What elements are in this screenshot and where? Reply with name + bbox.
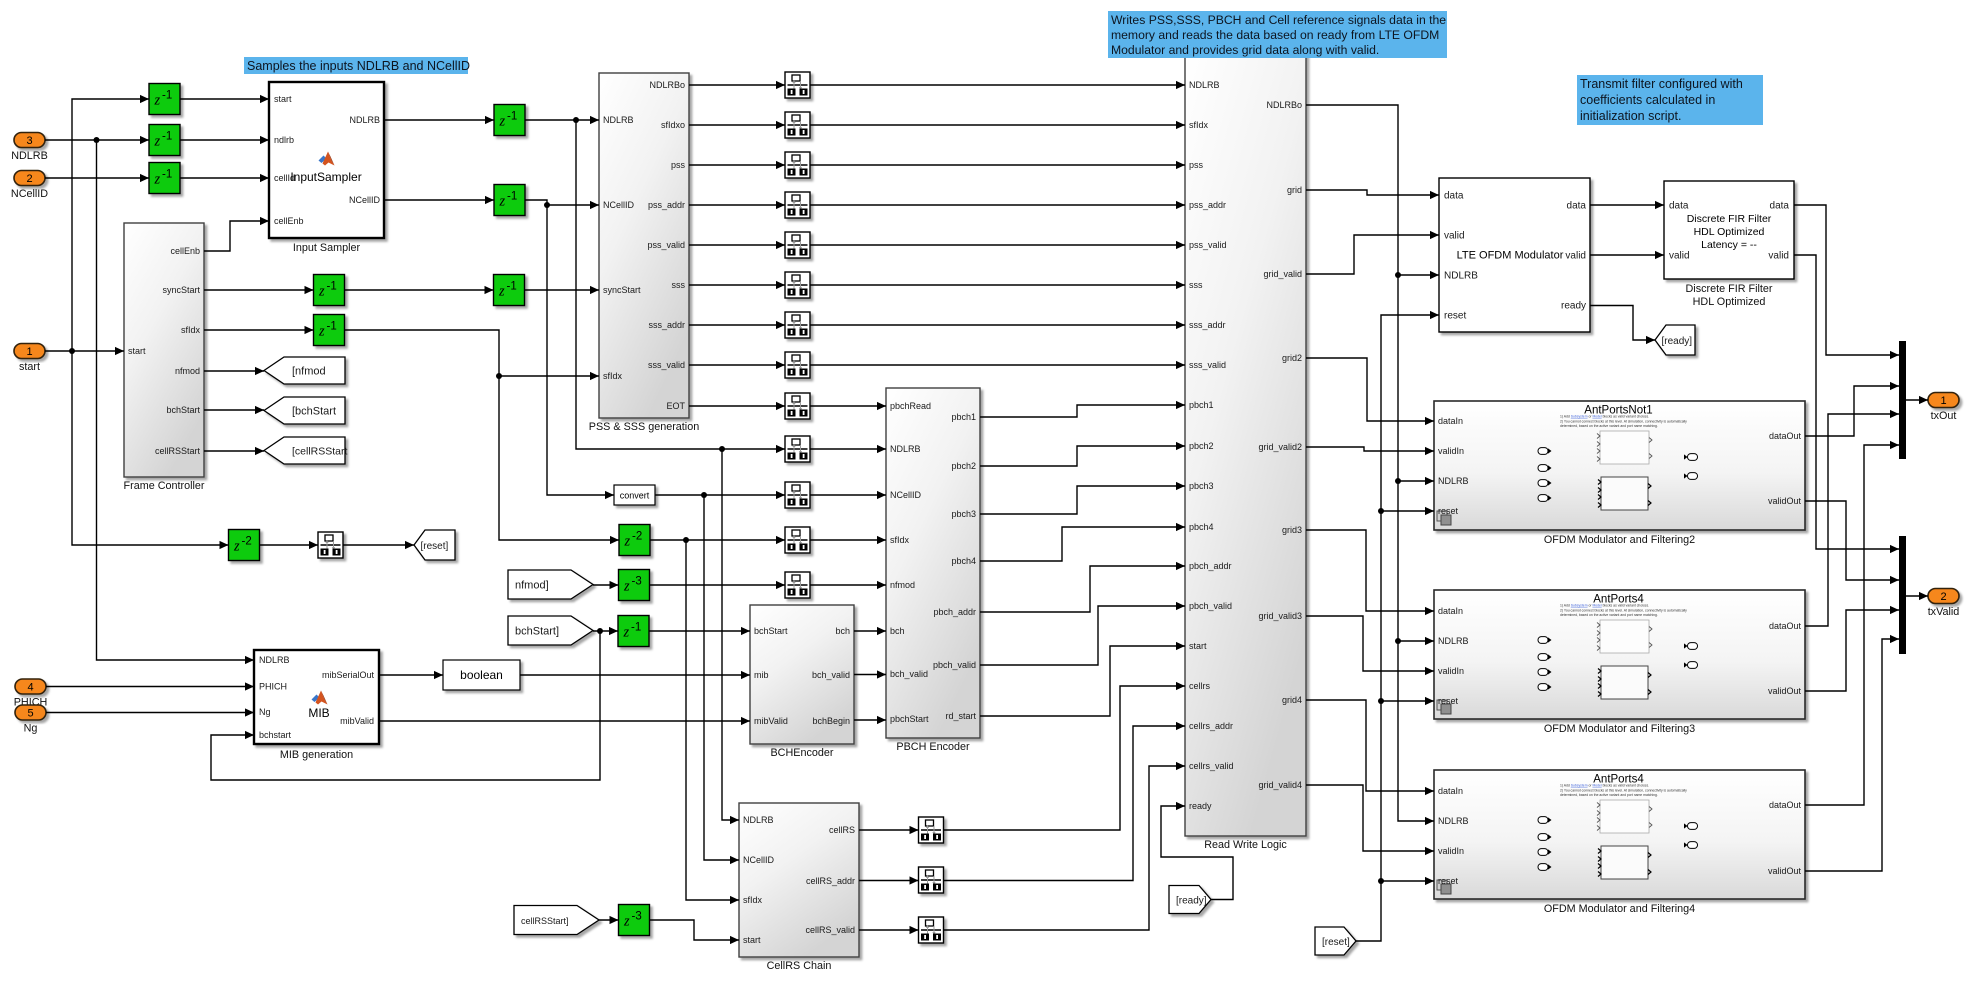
rate transition sfIdxo [785, 112, 810, 138]
svg-text:grid_valid2: grid_valid2 [1258, 442, 1302, 452]
rate transition pss [785, 152, 810, 178]
svg-text:NCellID: NCellID [11, 188, 48, 200]
delay Z-3 cellRSStart [619, 905, 650, 936]
wire convert to rate transition [655, 491, 785, 499]
svg-text:txValid: txValid [1928, 606, 1960, 618]
wire PBCH pbch_valid to Read Write Logic [980, 602, 1185, 665]
svg-text:determined, based on the activ: determined, based on the active variant … [1560, 613, 1658, 617]
wire LTE OFDM ready to goto ready [1590, 306, 1655, 345]
svg-text:cellRSStart]: cellRSStart] [521, 916, 569, 926]
svg-text:HDL Optimized: HDL Optimized [1694, 226, 1765, 238]
wire CellRS cellRS_addr to rate transition [859, 876, 919, 884]
svg-text:NDLRB: NDLRB [1189, 80, 1220, 90]
svg-text:2) You cannot connect blocks a: 2) You cannot connect blocks at this lev… [1560, 608, 1687, 612]
inport 1 start [14, 344, 45, 374]
unit delay Z-1 ndlrb [149, 125, 180, 156]
svg-text:pbch4: pbch4 [1189, 522, 1214, 532]
svg-text:NDLRB: NDLRB [1438, 636, 1469, 646]
wire PSS pss_addr to rate transition [689, 201, 785, 209]
wire rate transition to goto reset [343, 541, 414, 549]
svg-text:validIn: validIn [1438, 666, 1464, 676]
svg-text:coefficients calculated in: coefficients calculated in [1580, 93, 1715, 107]
from tag [reset] [1315, 927, 1356, 955]
svg-text:InputSampler: InputSampler [290, 170, 361, 184]
rate transition sss_addr [785, 312, 810, 338]
mux txValid [1899, 536, 1906, 654]
svg-text:ready: ready [1189, 801, 1212, 811]
wire PSS NDLRBo to rate transition [689, 81, 785, 89]
svg-text:pss_addr: pss_addr [648, 200, 685, 210]
annotation note: Samples the inputs [244, 57, 470, 74]
wire inport4 PHICH to MIB [46, 682, 254, 690]
svg-text:start: start [19, 361, 40, 373]
wire PSS sss_valid to rate transition [689, 361, 785, 369]
svg-text:1) Add Subsystem or Model bloc: 1) Add Subsystem or Model blocks as vali… [1560, 415, 1649, 419]
wire delay Z-2 sfIdx to rate transition [650, 536, 785, 544]
svg-text:-1: -1 [327, 281, 337, 293]
svg-text:dataOut: dataOut [1769, 800, 1802, 810]
wire grid_valid4 to Filtering4 validIn [1306, 785, 1434, 855]
wire PSS sfIdxo to rate transition [689, 121, 785, 129]
wire CellRS cellRS_valid to rate transition [859, 926, 919, 934]
svg-text:PHICH: PHICH [259, 682, 287, 692]
svg-text:data: data [1444, 191, 1464, 202]
MATLAB function block MIB generation [254, 650, 379, 761]
goto tag [bchStart [264, 397, 345, 424]
inport 3 NDLRB [11, 133, 48, 163]
svg-text:Discrete FIR Filter: Discrete FIR Filter [1686, 283, 1773, 295]
rate transition NDLRBo [785, 72, 810, 98]
svg-text:ready: ready [1561, 301, 1586, 312]
wire Filtering3 dataOut to mux txOut [1805, 410, 1899, 626]
svg-text:-1: -1 [162, 131, 172, 143]
wire NCellID branch to convert [547, 205, 614, 499]
svg-text:NDLRB: NDLRB [890, 444, 921, 454]
svg-text:start: start [128, 346, 146, 356]
subsystem Read Write Logic [1185, 54, 1306, 851]
svg-text:1) Add Subsystem or Model bloc: 1) Add Subsystem or Model blocks as vali… [1560, 784, 1649, 788]
wire PBCH pbch2 to Read Write Logic [980, 442, 1185, 466]
svg-text:z: z [623, 579, 630, 595]
wire Filtering4 validOut to mux txValid [1805, 635, 1899, 871]
svg-text:boolean: boolean [460, 668, 503, 682]
wire PSS pss_valid to rate transition [689, 241, 785, 249]
subsystem PSS and SSS generation [589, 73, 699, 433]
wire PSS sss to rate transition [689, 281, 785, 289]
svg-text:EOT: EOT [666, 401, 685, 411]
svg-text:pbch_valid: pbch_valid [933, 660, 976, 670]
wire PBCH rd_start to Read Write Logic start [980, 642, 1185, 716]
svg-text:validIn: validIn [1438, 846, 1464, 856]
wire BCHEncoder bch to PBCH [854, 627, 886, 635]
svg-text:valid: valid [1768, 251, 1789, 262]
wire rate transition cellRS to Read Write Logic [944, 682, 1186, 830]
svg-text:OFDM Modulator and Filtering4: OFDM Modulator and Filtering4 [1544, 903, 1695, 915]
data type conversion block boolean [443, 660, 520, 690]
rate transition EOT [785, 393, 810, 419]
svg-text:syncStart: syncStart [162, 285, 200, 295]
svg-text:valid: valid [1565, 251, 1586, 262]
wire inport2 to delay cellId [45, 174, 149, 182]
wire Frame Controller cellRSStart to goto [204, 447, 264, 455]
svg-text:[reset]: [reset] [1322, 937, 1350, 948]
wire rate transition nfmod to PBCH [810, 581, 886, 589]
wire mux to outport txOut [1906, 396, 1928, 404]
wire Filtering4 dataOut to mux txOut [1805, 441, 1899, 805]
svg-text:mib: mib [754, 670, 769, 680]
wire Frame Controller cellEnb to Input Sampler [204, 217, 269, 251]
svg-text:z: z [624, 534, 631, 550]
svg-text:MIB generation: MIB generation [280, 749, 353, 761]
svg-text:pss_valid: pss_valid [1189, 240, 1227, 250]
subsystem CellRS Chain [739, 803, 859, 972]
svg-text:start: start [274, 94, 292, 104]
wire grid_valid to LTE OFDM Modulator valid [1306, 231, 1439, 274]
wire boolean to BCHEncoder mib [520, 671, 750, 679]
from tag [ready] [1169, 886, 1211, 914]
svg-text:-1: -1 [631, 622, 641, 634]
svg-text:reset: reset [1438, 696, 1459, 706]
wire NDLRB branch to CellRS Chain [722, 449, 739, 824]
svg-text:cellrs_addr: cellrs_addr [1189, 721, 1233, 731]
svg-text:bchStart]: bchStart] [515, 625, 559, 637]
svg-text:bchStart: bchStart [754, 626, 788, 636]
svg-text:-1: -1 [162, 90, 172, 102]
svg-text:z: z [154, 93, 161, 109]
svg-text:[bchStart: [bchStart [292, 405, 336, 417]
wire CellRS cellRS to rate transition [859, 826, 919, 834]
wire rate transition sfIdx to PBCH [810, 536, 886, 544]
wire PSS pss to rate transition [689, 161, 785, 169]
svg-text:Frame Controller: Frame Controller [124, 480, 205, 492]
goto tag [cellRSStart [264, 437, 348, 464]
svg-text:determined, based on the activ: determined, based on the active variant … [1560, 424, 1658, 428]
wire grid2 to Filtering2 dataIn [1306, 358, 1434, 425]
svg-text:cellrs_valid: cellrs_valid [1189, 761, 1234, 771]
svg-text:NDLRB: NDLRB [1438, 816, 1469, 826]
wire from nfmod] to delay Z-3 [593, 581, 619, 589]
svg-text:NCellID: NCellID [603, 200, 635, 210]
wire PSS EOT to rate transition [689, 402, 785, 410]
svg-text:sss_valid: sss_valid [1189, 360, 1226, 370]
unit delay Z-1 NCellID2 [494, 185, 525, 216]
svg-text:pbchRead: pbchRead [890, 401, 931, 411]
wire NDLRB branch to MIB generation [97, 140, 255, 664]
wire rate transition sss_valid to Read Write Logic [810, 361, 1185, 369]
inport 5 Ng [15, 705, 46, 735]
wire rate transition EOT to PBCH pbchRead [810, 402, 886, 410]
wire sfIdx branch to CellRS Chain [686, 540, 739, 904]
svg-text:NDLRBo: NDLRBo [649, 80, 685, 90]
subsystem LTE OFDM Modulator [1439, 178, 1590, 332]
svg-text:bch_valid: bch_valid [890, 669, 928, 679]
wire rate transition pss to Read Write Logic [810, 161, 1185, 169]
wire NDLRBo branch to Filtering3 NDLRB [1395, 481, 1434, 645]
svg-text:-2: -2 [242, 536, 252, 548]
svg-text:z: z [318, 284, 325, 300]
wire delay cellId to Input Sampler [180, 174, 269, 182]
svg-text:[cellRSStart: [cellRSStart [292, 445, 348, 457]
svg-text:NDLRB: NDLRB [1444, 271, 1478, 282]
svg-text:z: z [499, 194, 506, 210]
unit delay Z-1 syncStart [314, 275, 345, 306]
rate transition pss_addr [785, 192, 810, 218]
variant subsystem OFDM Modulator and Filtering2 [1434, 401, 1805, 546]
svg-text:grid4: grid4 [1282, 695, 1302, 705]
svg-text:cellRS_valid: cellRS_valid [805, 925, 855, 935]
rate transition sfIdx [785, 527, 810, 553]
svg-text:dataOut: dataOut [1769, 621, 1802, 631]
wire rate transition NDLRBo to Read Write Logic [810, 81, 1185, 89]
svg-text:2: 2 [1940, 591, 1946, 603]
rate transition cellRS_valid [919, 917, 944, 943]
svg-text:bch_valid: bch_valid [812, 670, 850, 680]
wire rate transition sss_addr to Read Write Logic [810, 321, 1185, 329]
wire MIB mibSerialOut to boolean [379, 671, 443, 679]
rate transition cellRS_addr [919, 867, 944, 893]
svg-text:reset: reset [1438, 876, 1459, 886]
svg-text:2) You cannot connect blocks a: 2) You cannot connect blocks at this lev… [1560, 788, 1687, 792]
svg-text:reset: reset [1438, 506, 1459, 516]
svg-text:pss: pss [671, 160, 686, 170]
rate transition NDLRB [785, 436, 810, 462]
rate transition reset [318, 532, 343, 558]
inport 2 NCellID [11, 171, 48, 201]
wire delay bchStart to BCHEncoder [649, 627, 750, 635]
rate transition cellRS [919, 817, 944, 843]
svg-text:grid: grid [1287, 185, 1302, 195]
svg-text:PSS & SSS generation: PSS & SSS generation [589, 421, 699, 433]
svg-text:2: 2 [26, 173, 32, 185]
wire sfIdx branch to delay Z-2 [499, 376, 619, 544]
svg-text:nfmod]: nfmod] [515, 579, 549, 591]
from tag bchStart] [508, 616, 593, 645]
svg-text:-1: -1 [507, 111, 517, 123]
svg-text:z: z [498, 284, 505, 300]
svg-text:dataIn: dataIn [1438, 416, 1463, 426]
svg-text:-1: -1 [327, 321, 337, 333]
wire reset branch to Filtering2 reset [1381, 507, 1434, 515]
svg-text:z: z [233, 539, 240, 555]
wire LTE OFDM valid to FIR valid [1590, 251, 1664, 259]
wire delay cellRSStart to CellRS start [650, 920, 740, 944]
svg-text:Ng: Ng [24, 723, 38, 735]
svg-text:pbch2: pbch2 [1189, 441, 1214, 451]
svg-text:pbch_addr: pbch_addr [1189, 561, 1232, 571]
svg-text:data: data [1567, 201, 1587, 212]
wire reset branch to Filtering3 reset [1381, 697, 1434, 705]
inport 4 PHICH [14, 679, 48, 709]
svg-text:LTE OFDM Modulator: LTE OFDM Modulator [1457, 250, 1564, 262]
wire from ready] to Read Write Logic ready [1161, 802, 1233, 900]
wire Input Sampler NDLRB to delay [384, 116, 494, 124]
svg-text:1: 1 [1940, 395, 1946, 407]
svg-text:valid: valid [1669, 251, 1690, 262]
svg-text:-1: -1 [507, 281, 517, 293]
svg-text:validOut: validOut [1768, 496, 1802, 506]
rate transition sss [785, 272, 810, 298]
svg-text:-3: -3 [632, 576, 642, 588]
svg-text:determined, based on the activ: determined, based on the active variant … [1560, 793, 1658, 797]
wire rate transition sfIdxo to Read Write Logic [810, 121, 1185, 129]
svg-text:validIn: validIn [1438, 446, 1464, 456]
wire Filtering2 dataOut to mux txOut [1805, 382, 1899, 436]
svg-text:valid: valid [1444, 231, 1465, 242]
wire Frame Controller bchStart to goto [204, 406, 264, 414]
svg-text:sfIdx: sfIdx [1189, 120, 1209, 130]
svg-text:-2: -2 [632, 531, 642, 543]
svg-text:dataOut: dataOut [1769, 431, 1802, 441]
wire grid_valid2 to Filtering2 validIn [1306, 447, 1434, 455]
delay Z-2 reset path [229, 530, 260, 561]
wire inport5 Ng to MIB [46, 708, 254, 716]
svg-text:Read Write Logic: Read Write Logic [1204, 839, 1287, 851]
wire inport1 to Frame Controller start [45, 347, 124, 355]
svg-text:CellRS Chain: CellRS Chain [767, 960, 832, 972]
svg-text:-3: -3 [632, 911, 642, 923]
svg-text:2) You cannot connect blocks a: 2) You cannot connect blocks at this lev… [1560, 419, 1687, 423]
svg-text:z: z [623, 914, 630, 930]
annotation note: Transmit filter [1577, 75, 1763, 125]
svg-text:memory and reads the data base: memory and reads the data based on ready… [1111, 28, 1439, 42]
svg-text:BCHEncoder: BCHEncoder [770, 747, 833, 759]
wire PBCH pbch1 to Read Write Logic [980, 401, 1185, 417]
unit delay Z-1 bchStart [618, 616, 649, 647]
wire delay Z-2 to rate transition [260, 541, 319, 549]
wire NDLRBo branch to Filtering2 NDLRB [1395, 275, 1434, 485]
svg-text:Ng: Ng [259, 707, 271, 717]
wire PBCH pbch_addr to Read Write Logic [980, 562, 1185, 612]
svg-text:pbch_addr: pbch_addr [933, 607, 976, 617]
svg-text:pbch_valid: pbch_valid [1189, 601, 1232, 611]
svg-text:mibValid: mibValid [754, 716, 788, 726]
svg-text:z: z [154, 172, 161, 188]
svg-text:sfIdxo: sfIdxo [661, 120, 685, 130]
wire from cellRSStart] to delay Z-3 [599, 916, 619, 924]
wire NDLRB branch down to PBCH row [576, 120, 785, 453]
wire PBCH pbch3 to Read Write Logic [980, 482, 1185, 514]
wire NCellID to PSS generation [525, 200, 599, 209]
svg-text:ndlrb: ndlrb [274, 135, 294, 145]
subsystem PBCH Encoder [886, 388, 980, 753]
svg-text:grid_valid4: grid_valid4 [1258, 780, 1302, 790]
svg-text:cellRS_addr: cellRS_addr [806, 876, 855, 886]
svg-text:dataIn: dataIn [1438, 786, 1463, 796]
mux txOut [1899, 341, 1906, 459]
wire grid to LTE OFDM Modulator data [1306, 190, 1439, 199]
wire rate transition pss_valid to Read Write Logic [810, 241, 1185, 249]
svg-text:NDLRB: NDLRB [11, 150, 48, 162]
svg-text:NCellID: NCellID [743, 855, 775, 865]
wire rate transition NCellID to PBCH [810, 491, 886, 499]
svg-text:Samples the inputs NDLRB and N: Samples the inputs NDLRB and NCellID [247, 59, 470, 73]
outport 2 txValid [1928, 589, 1960, 619]
svg-text:Discrete FIR Filter: Discrete FIR Filter [1687, 213, 1772, 225]
subsystem BCHEncoder [750, 605, 854, 759]
goto tag [reset] [414, 530, 455, 560]
wire rate transition pss_addr to Read Write Logic [810, 201, 1185, 209]
svg-text:sfIdx: sfIdx [743, 895, 763, 905]
wire BCHEncoder bchBegin to PBCH pbchStart [854, 716, 886, 724]
svg-text:bchBegin: bchBegin [812, 716, 850, 726]
wire FIR data to mux txOut [1794, 205, 1899, 359]
wire MIB mibValid to BCHEncoder [379, 717, 750, 725]
svg-text:start: start [1189, 641, 1207, 651]
wire NDLRB to PSS generation [525, 116, 599, 124]
svg-text:HDL Optimized: HDL Optimized [1693, 296, 1766, 308]
unit delay Z-1 cellId [149, 163, 180, 194]
wire Frame Controller nfmod to goto [204, 367, 264, 375]
svg-text:NDLRB: NDLRB [603, 115, 634, 125]
wire rate transition cellRS_valid to Read Write Logic [944, 762, 1186, 930]
svg-text:grid_valid3: grid_valid3 [1258, 611, 1302, 621]
wire mux to outport txValid [1906, 592, 1928, 600]
svg-text:cellRSStart: cellRSStart [155, 446, 201, 456]
data type conversion block convert [614, 485, 655, 505]
svg-text:grid2: grid2 [1282, 353, 1302, 363]
variant subsystem OFDM Modulator and Filtering4 [1434, 770, 1805, 915]
svg-text:nfmod: nfmod [890, 580, 915, 590]
svg-text:sss_addr: sss_addr [648, 320, 685, 330]
svg-text:NDLRB: NDLRB [349, 115, 380, 125]
svg-text:sfIdx: sfIdx [890, 535, 910, 545]
variant subsystem OFDM Modulator and Filtering3 [1434, 590, 1805, 735]
wire syncStart delay to delay2 [345, 286, 494, 294]
svg-text:z: z [499, 114, 506, 130]
wire start branch down to delay Z-2 [72, 351, 229, 549]
from tag cellRSStart] [514, 906, 599, 935]
wire grid_valid3 to Filtering3 validIn [1306, 616, 1434, 675]
wire delay Z-3 nfmod to rate transition [650, 581, 786, 589]
wire delay start to Input Sampler [180, 95, 269, 103]
wire bchStart branch to MIB bchstart [211, 631, 600, 780]
svg-text:[nfmod: [nfmod [292, 365, 326, 377]
svg-text:pss: pss [1189, 160, 1204, 170]
svg-text:pbch1: pbch1 [951, 412, 976, 422]
svg-text:-1: -1 [507, 191, 517, 203]
subsystem Frame Controller [124, 223, 205, 492]
svg-text:mibSerialOut: mibSerialOut [322, 670, 375, 680]
svg-text:3: 3 [26, 135, 32, 147]
wire grid4 to Filtering4 dataIn [1306, 700, 1434, 795]
svg-text:z: z [318, 324, 325, 340]
svg-text:[ready]: [ready] [1176, 895, 1207, 906]
svg-text:pbch2: pbch2 [951, 461, 976, 471]
wire Input Sampler NCellID to delay [384, 196, 494, 204]
svg-text:bchStart: bchStart [166, 405, 200, 415]
wire sfIdx delay to PSS sfIdx [345, 330, 600, 380]
svg-text:mibValid: mibValid [340, 716, 374, 726]
svg-text:pbchStart: pbchStart [890, 714, 929, 724]
svg-text:rd_start: rd_start [945, 711, 976, 721]
goto tag [nfmod [264, 357, 345, 384]
svg-text:bch: bch [835, 626, 850, 636]
svg-text:NDLRB: NDLRB [743, 815, 774, 825]
svg-text:initialization script.: initialization script. [1580, 109, 1681, 123]
svg-text:Writes PSS,SSS, PBCH and Cell: Writes PSS,SSS, PBCH and Cell reference … [1111, 13, 1446, 27]
wire PSS sss_addr to rate transition [689, 321, 785, 329]
svg-text:convert: convert [620, 491, 650, 501]
wire delay ndlrb to Input Sampler [180, 136, 269, 144]
svg-text:sfIdx: sfIdx [181, 325, 201, 335]
svg-text:Modulator and provides grid da: Modulator and provides grid data along w… [1111, 43, 1379, 57]
svg-text:[reset]: [reset] [421, 541, 449, 552]
unit delay Z-1 syncStart2 [494, 275, 525, 306]
svg-text:pbch3: pbch3 [1189, 481, 1214, 491]
svg-text:Transmit filter configured wit: Transmit filter configured with [1580, 77, 1743, 91]
svg-text:sss_valid: sss_valid [648, 360, 685, 370]
svg-text:cellEnb: cellEnb [170, 246, 200, 256]
